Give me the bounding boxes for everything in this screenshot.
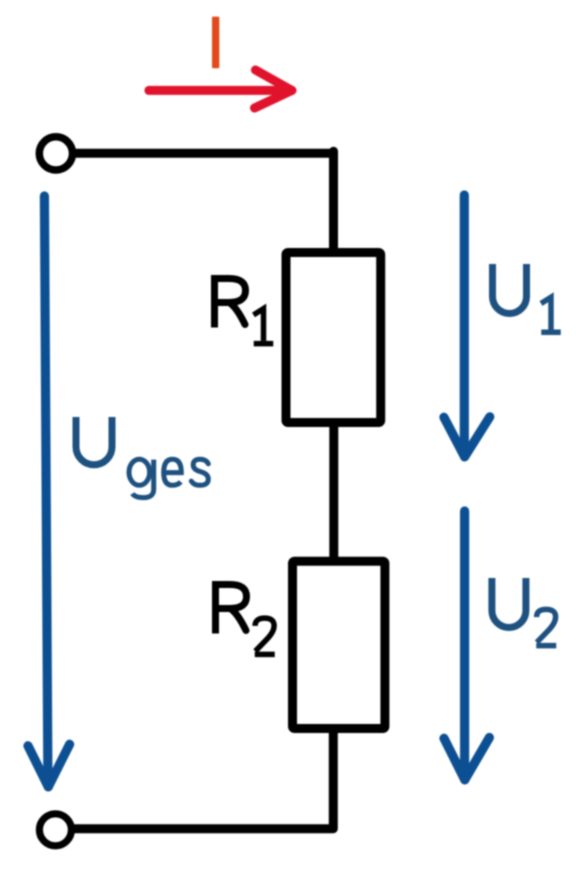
label R2 <box>216 581 275 654</box>
voltage arrow U1 (right of R1, downward) <box>444 195 490 457</box>
wire: R1 to R2 <box>329 420 338 563</box>
node B (bottom-left terminal) <box>39 814 71 846</box>
resistor R2 <box>293 561 385 728</box>
current arrow I (red, pointing right) <box>149 70 292 108</box>
voltage arrow U2 (right of R2, downward) <box>444 511 489 780</box>
label I (current symbol) <box>212 17 219 69</box>
voltage arrow U_ges (left, downward) <box>28 196 70 787</box>
wire: top horizontal from terminal A to R1 branch <box>74 149 334 158</box>
label U_ges <box>76 417 208 498</box>
label U1 <box>493 264 561 332</box>
wire: R2 bottom lead and bottom horizontal to terminal B <box>74 726 333 829</box>
wire: R1 top lead <box>329 151 338 258</box>
label U2 <box>492 578 556 646</box>
node A (top-left terminal) <box>39 137 72 170</box>
label R1 <box>215 275 274 344</box>
resistor R1 <box>286 253 381 423</box>
